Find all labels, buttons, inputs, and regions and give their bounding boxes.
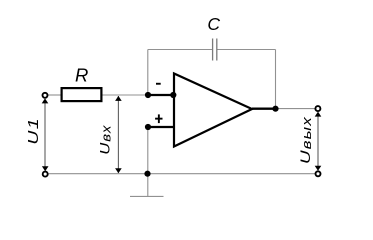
junction output node [272, 106, 278, 112]
junction at op-amp inverting pin [170, 92, 176, 98]
Uvx arrowhead up [115, 96, 122, 101]
op-amp plus label vertical [158, 114, 160, 123]
wire output node to output terminal [276, 108, 315, 110]
junction ground node [144, 171, 150, 177]
wire feedback right vertical to output node [275, 50, 277, 109]
op-amp U1 triangle [174, 74, 252, 147]
svg-text:U1: U1 [24, 117, 41, 145]
svg-text:Uвх: Uвх [97, 124, 113, 154]
Uvyx arrowhead down [315, 166, 322, 171]
op-amp inverting input stub [148, 94, 174, 96]
wire capacitor to feedback top right [217, 49, 276, 51]
svg-text:Uвых: Uвых [297, 116, 314, 164]
U1 voltage arrow shaft [44, 100, 46, 169]
svg-text:R: R [75, 65, 88, 86]
terminal output top [315, 106, 320, 111]
junction noninverting node [145, 124, 151, 130]
terminal input bottom [43, 172, 48, 177]
wire top rail from input terminal to resistor [48, 94, 61, 96]
U1 arrowhead up [42, 98, 49, 103]
resistor R [62, 88, 102, 101]
op-amp plus label horizontal [155, 118, 162, 120]
op-amp noninverting input stub [148, 126, 174, 128]
op-amp output stub [252, 108, 276, 110]
wire noninverting junction down to ground rail [147, 127, 149, 174]
Uvyx arrowhead up [315, 112, 322, 117]
wire feedback top left to capacitor [148, 49, 213, 51]
terminal output bottom [316, 171, 321, 176]
ground stem [147, 174, 149, 197]
terminal input top [43, 93, 48, 98]
junction inverting node [145, 92, 151, 98]
Uvx voltage arrow shaft [117, 96, 119, 173]
Uvyx voltage arrow shaft [317, 113, 319, 169]
Uvx arrowhead down [115, 168, 122, 173]
wire from resistor to inverting junction [102, 94, 148, 96]
svg-text:C: C [207, 14, 220, 34]
op-amp minus label [156, 83, 161, 85]
wire bottom rail [48, 173, 314, 175]
capacitor C right plate [216, 39, 218, 61]
U1 arrowhead down [42, 166, 49, 171]
capacitor C left plate [212, 39, 214, 61]
wire feedback left vertical [147, 50, 149, 96]
ground bar [130, 195, 164, 197]
